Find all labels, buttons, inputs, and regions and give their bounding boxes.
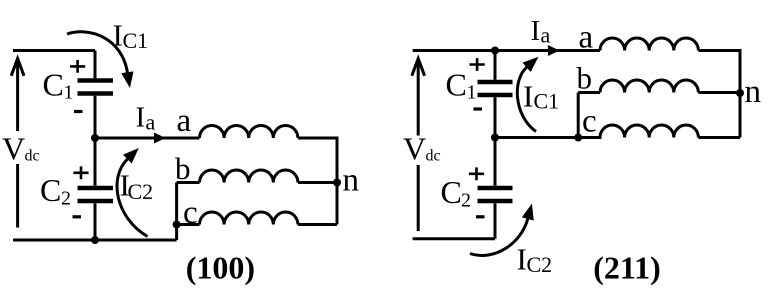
svg-text:I: I xyxy=(517,242,527,277)
svg-text:c: c xyxy=(582,104,597,140)
svg-text:I: I xyxy=(523,79,533,114)
svg-text:n: n xyxy=(343,163,360,199)
svg-text:a: a xyxy=(146,110,156,135)
svg-text:b: b xyxy=(577,61,593,96)
svg-text:C1: C1 xyxy=(123,28,149,53)
svg-text:I: I xyxy=(113,18,123,53)
svg-text:V: V xyxy=(2,131,25,167)
svg-text:(211): (211) xyxy=(593,250,661,286)
svg-text:a: a xyxy=(541,23,551,48)
svg-text:C: C xyxy=(40,172,61,208)
svg-text:1: 1 xyxy=(467,82,477,104)
svg-text:a: a xyxy=(579,20,594,56)
svg-text:c: c xyxy=(183,195,198,231)
svg-text:C: C xyxy=(43,67,64,103)
svg-text:2: 2 xyxy=(61,188,71,210)
svg-text:I: I xyxy=(136,101,146,133)
svg-text:C2: C2 xyxy=(527,252,553,277)
svg-text:C: C xyxy=(441,174,462,210)
svg-text:C: C xyxy=(446,67,467,103)
svg-text:2: 2 xyxy=(461,190,471,212)
svg-text:C2: C2 xyxy=(128,179,154,204)
svg-text:(100): (100) xyxy=(186,250,255,286)
svg-text:a: a xyxy=(177,103,192,139)
svg-text:b: b xyxy=(175,151,191,186)
svg-text:V: V xyxy=(403,131,426,167)
svg-text:dc: dc xyxy=(426,148,441,165)
svg-text:1: 1 xyxy=(64,82,74,104)
svg-text:n: n xyxy=(745,74,762,110)
svg-text:C1: C1 xyxy=(534,89,560,114)
svg-text:I: I xyxy=(531,15,541,47)
svg-text:dc: dc xyxy=(25,148,40,165)
